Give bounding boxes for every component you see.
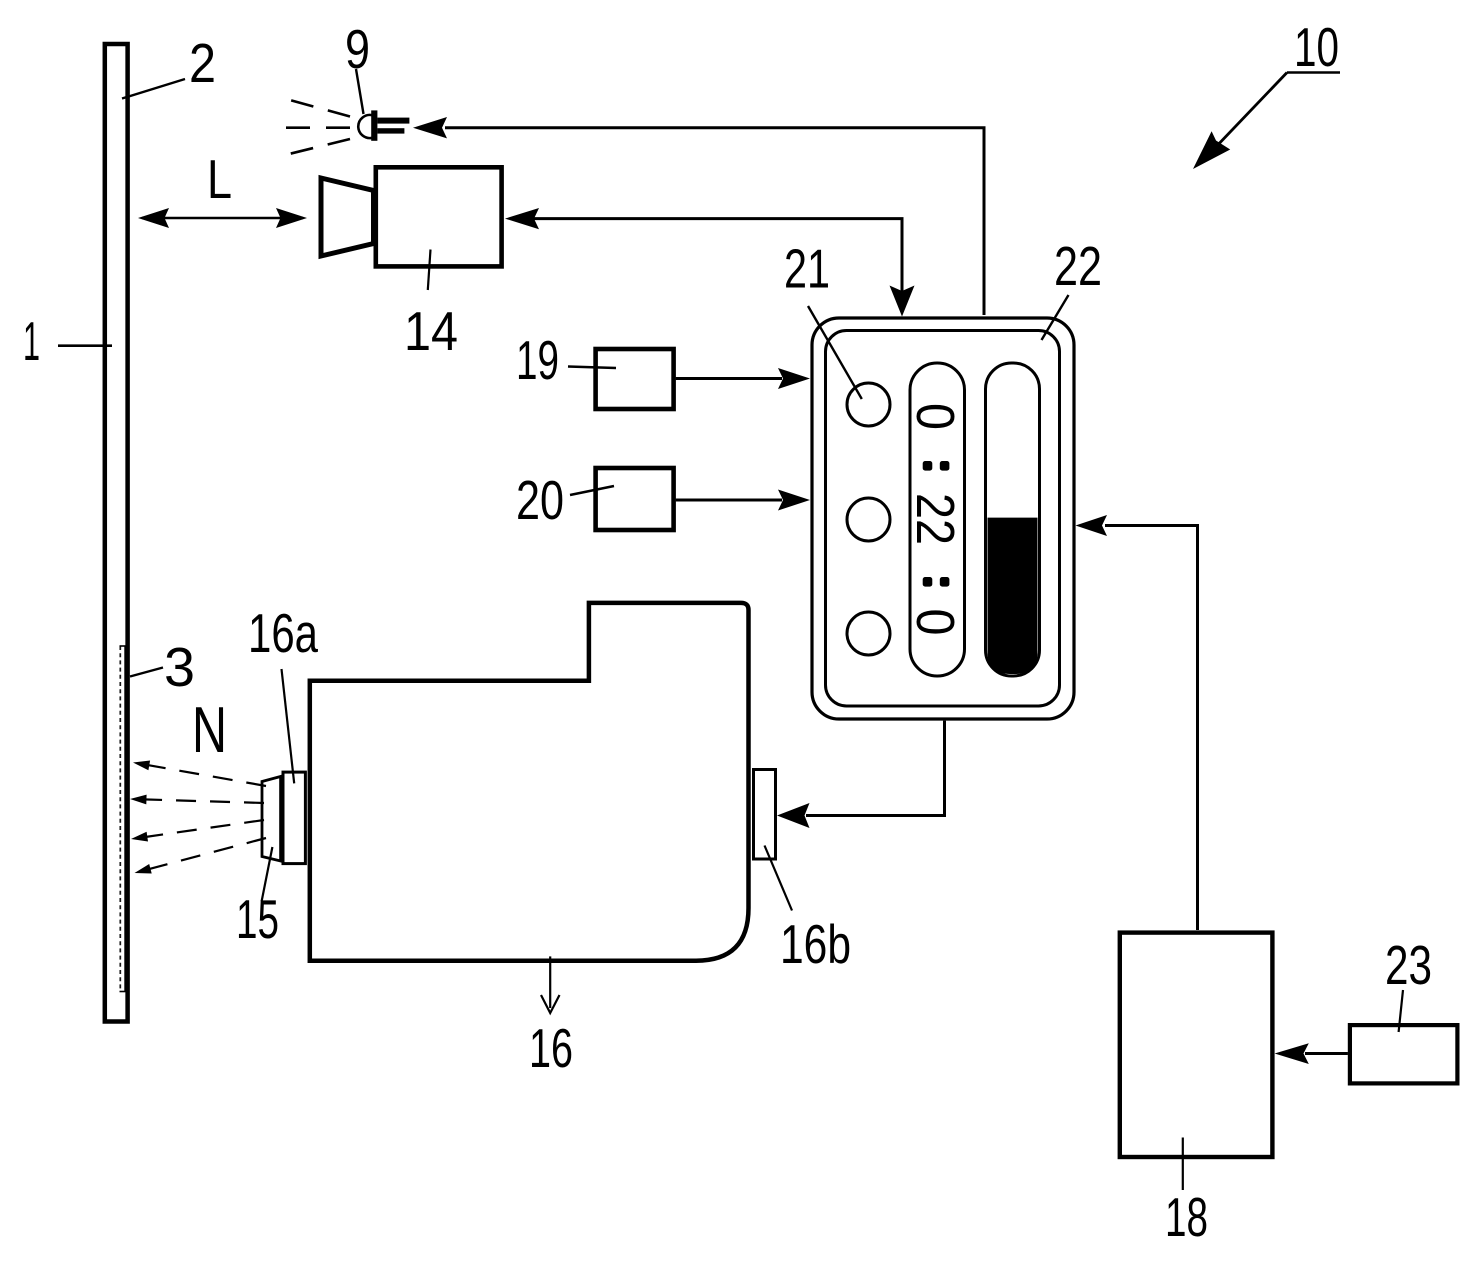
svg-text:22: 22 — [905, 493, 965, 545]
wire LED to controller — [413, 117, 984, 315]
svg-text:21: 21 — [784, 238, 830, 300]
label 23 — [1385, 934, 1432, 1032]
svg-text:14: 14 — [404, 300, 458, 362]
nozzle flange 16a — [283, 772, 305, 864]
svg-text:3: 3 — [164, 636, 195, 698]
sprayer machine 16 body — [310, 603, 749, 961]
pump box 18 — [1120, 933, 1273, 1157]
svg-text:20: 20 — [516, 469, 564, 531]
timer text 0:22:0 — [905, 403, 965, 636]
svg-text:15: 15 — [236, 888, 279, 950]
pointer arrow 10 — [1193, 73, 1287, 170]
svg-text:22: 22 — [1054, 235, 1102, 297]
controller body inner frame — [826, 331, 1060, 707]
gauge black fill — [988, 518, 1038, 674]
box 20 — [596, 468, 674, 530]
coating strip 3 — [120, 646, 126, 992]
label 22 — [1042, 235, 1103, 340]
label 10 — [1287, 16, 1340, 78]
label 16b — [765, 846, 852, 976]
svg-text:16b: 16b — [780, 913, 851, 975]
label 19 — [516, 329, 616, 391]
label 21 — [784, 238, 862, 400]
label 20 — [516, 469, 614, 531]
wire 23 to 18 — [1275, 1043, 1348, 1064]
label 3 — [130, 636, 195, 698]
wire camera to controller — [505, 208, 915, 317]
label 16a — [248, 602, 318, 783]
button circle 21a — [847, 383, 890, 426]
svg-text:16a: 16a — [248, 602, 318, 664]
box 23 — [1350, 1025, 1458, 1083]
LED lamp 9 — [358, 110, 409, 140]
valve box 16b — [754, 770, 776, 860]
svg-text:10: 10 — [1294, 16, 1339, 78]
svg-text:19: 19 — [516, 329, 559, 391]
label N — [192, 693, 227, 766]
camera body 14 — [376, 167, 502, 266]
spray dashed arrow 2 — [130, 795, 264, 805]
label 9 — [345, 18, 370, 114]
wire 19 to controller — [676, 368, 810, 389]
label 14 — [404, 250, 458, 363]
button circle 21b — [847, 498, 890, 541]
label 16 — [529, 1017, 573, 1079]
distance arrow L — [138, 208, 307, 228]
wall panel 1 — [105, 44, 128, 1022]
svg-text:18: 18 — [1165, 1186, 1208, 1248]
LED light rays — [272, 100, 350, 155]
wire 20 to controller — [676, 490, 810, 511]
spray dashed arrow 1 — [133, 761, 266, 787]
wire controller to pump 18 — [1076, 515, 1198, 930]
spray dashed arrow 3 — [131, 820, 264, 842]
label 15 — [236, 847, 279, 950]
gauge slot — [986, 363, 1040, 676]
label 18 — [1165, 1138, 1208, 1249]
label 1 — [23, 310, 112, 372]
label 16 arrow — [541, 956, 560, 1013]
svg-text:L: L — [207, 148, 232, 210]
svg-text:N: N — [192, 693, 227, 766]
svg-text:23: 23 — [1385, 934, 1432, 996]
camera lens — [321, 178, 374, 256]
label L — [207, 148, 232, 210]
spray dashed arrow 4 — [135, 838, 267, 874]
svg-text:16: 16 — [529, 1017, 573, 1079]
nozzle 15 — [262, 777, 281, 862]
svg-text:2: 2 — [189, 32, 216, 94]
button circle 21c — [847, 612, 890, 655]
label 2 — [122, 32, 216, 99]
svg-text:0: 0 — [905, 403, 965, 430]
svg-text:9: 9 — [345, 18, 370, 80]
svg-text:1: 1 — [23, 310, 40, 372]
box 19 — [596, 349, 674, 409]
svg-text:0: 0 — [905, 609, 965, 636]
wire controller to valve 16b — [777, 721, 945, 828]
timer display slot — [910, 363, 965, 676]
controller body 22 outer — [812, 318, 1074, 719]
